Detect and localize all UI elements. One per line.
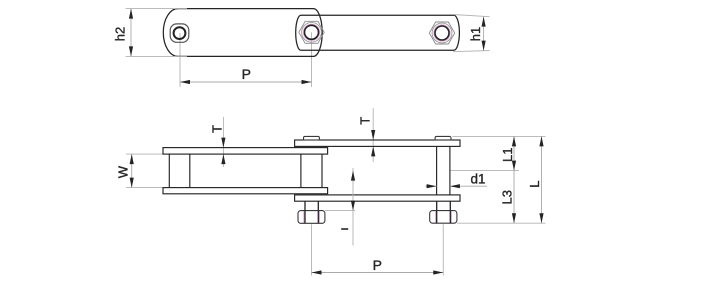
pin link plate (top view, plate h1) [296,15,460,50]
svg-text:L1: L1 [500,148,515,162]
dimension T2 centerline [372,108,374,162]
bushing square at hole A [170,24,189,42]
extension line pitch axis [451,170,520,172]
centerline pin hole A (top view) [179,33,181,87]
nut pin B [298,211,325,224]
bolt shank pin C between plates [436,146,438,195]
pin link top plate (side view) [295,140,460,146]
roller 2 (side view, joint) [300,154,302,188]
svg-text:T: T [358,117,373,125]
nut B thread circle [303,24,319,40]
svg-text:P: P [373,257,382,273]
bolt shank pin C below plate [436,201,438,210]
pin link bottom plate (side view) [295,195,460,201]
nut C thread circle [434,25,450,41]
dimension I extension line (nut top) [325,210,355,212]
dimension T1 arrows [221,138,225,148]
bolt head pin B (side view) [304,136,320,140]
svg-text:d1: d1 [471,171,486,186]
nut pin C [430,211,457,224]
pin B hole [305,25,319,39]
dimension P (bottom) extension lines [311,224,313,275]
svg-text:P: P [242,66,251,82]
extension line nut bottom [457,222,546,224]
pin hole A [174,27,186,39]
nut C washer circle [432,23,452,43]
dimension I arrows [351,171,355,181]
inner link bottom plate (side view) [163,188,328,194]
dimension L line [541,136,543,223]
dimension h1 extension lines [453,15,490,17]
hex nut C (top view) [429,22,454,44]
svg-text:h1: h1 [468,27,483,41]
dimension P (bottom) line [312,272,444,274]
dimension W extension lines [126,153,163,155]
dimension P (top) line [180,81,312,83]
inner link top plate (side view) [163,148,328,155]
dimension I centerline [352,168,354,246]
dimension W line [131,154,133,188]
svg-text:L: L [527,181,542,188]
svg-text:T: T [209,125,224,133]
dimension h2 extension lines [126,8,188,10]
inner link plate (top view, tall plate h2) [163,9,322,57]
label I [341,228,348,230]
dimension h2 line [130,9,132,57]
nut pin B thread lines [303,211,305,223]
dimension T1 centerline [222,117,224,167]
bolt shank pin B below plate [304,201,306,210]
dimension L1 line [513,136,515,170]
dimension d1 leader [426,185,437,187]
dimension L3 line [513,171,515,224]
roller 1 (side view) [168,154,170,188]
hex nut B (top view) [299,21,324,43]
svg-text:h2: h2 [113,27,128,41]
svg-text:W: W [115,165,130,178]
nut pin C thread lines [435,211,437,223]
extension line pin head top [452,135,545,137]
pin C hole [435,26,449,40]
dimension T2 arrows [371,130,375,140]
bolt head pin C (side view) [435,136,451,140]
svg-text:L3: L3 [500,190,515,204]
nut B washer circle [302,22,322,42]
centerline pin B (top view) [311,32,313,87]
dimension h1 line [483,17,485,51]
